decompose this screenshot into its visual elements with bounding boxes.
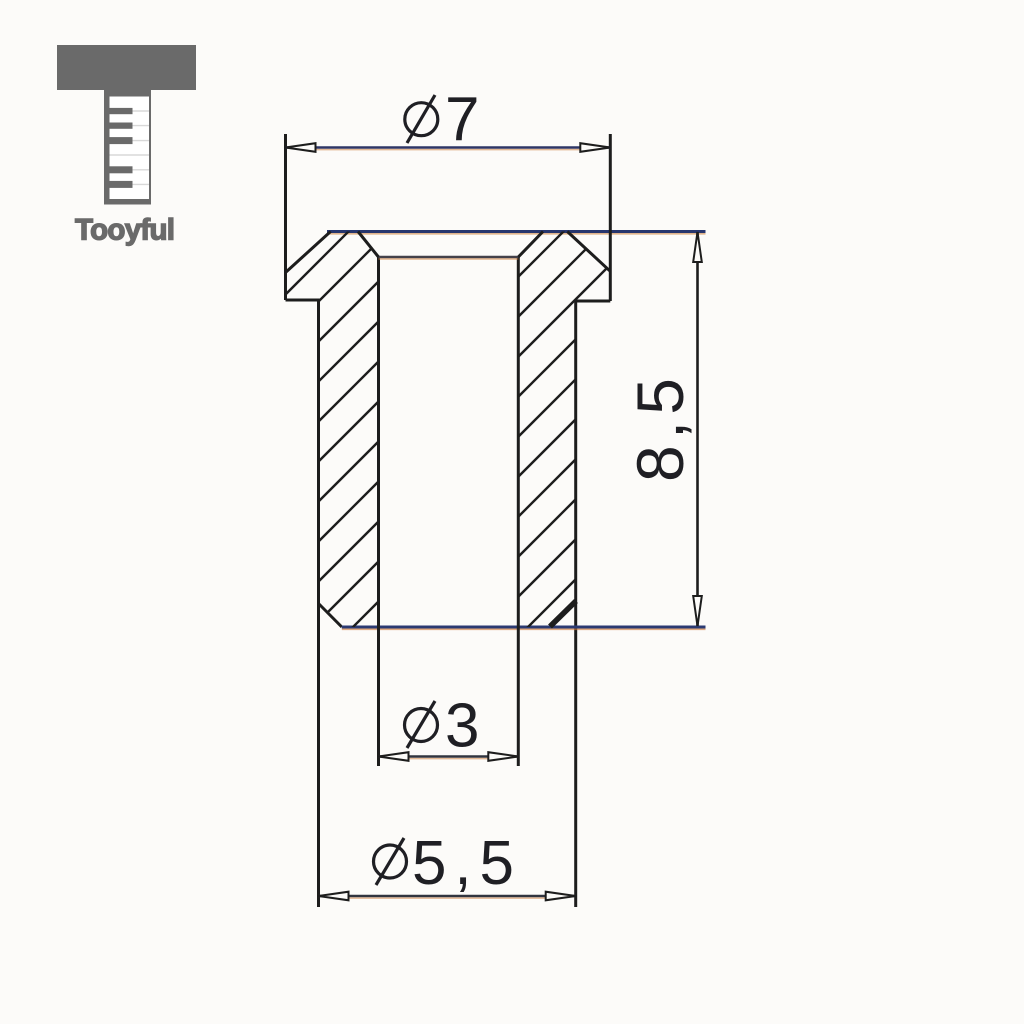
part outline: bottom edge (with 8,5 extension): [342, 627, 706, 629]
part outline: left flange edge + Ø7 extension line: [284, 134, 287, 300]
part outline: bore top edge: [379, 257, 519, 259]
logo text Tooyful: [75, 214, 175, 247]
part outline: top-right chamfer: [567, 232, 610, 272]
svg-text:8,5: 8,5: [623, 378, 697, 482]
dimension line Ø5,5: [319, 892, 576, 901]
logo black keys: [110, 108, 133, 188]
part outline: flange underside steps: [286, 300, 611, 301]
part outline: barrel right edge + Ø5,5 extension: [574, 301, 577, 907]
svg-text:5,5: 5,5: [412, 829, 514, 898]
logo keyboard stem frame: [104, 89, 151, 205]
part outline: bottom-left chamfer: [319, 604, 342, 628]
part outline: top-left chamfer: [286, 232, 331, 273]
hatching left wall: [0, 0, 980, 700]
logo white key separators: [110, 111, 150, 184]
part outline: right flange edge + Ø7 extension line: [609, 134, 612, 301]
part outline: bore left wall + Ø3 extension: [377, 257, 380, 766]
label Ø3: [405, 692, 480, 761]
part outline: bore inner chamfers: [358, 232, 543, 258]
part outline: flange top edge (with 8,5 extension): [327, 232, 706, 234]
part outline: barrel left edge + Ø5,5 extension: [317, 300, 320, 907]
logo top bar: [57, 45, 196, 90]
label Ø5,5: [374, 829, 515, 898]
hatching right wall: [95, 0, 1024, 700]
svg-text:7: 7: [445, 85, 479, 154]
bold bottom-right chamfer hatch: [550, 601, 576, 627]
part outline: bore right wall + Ø3 extension: [517, 257, 520, 766]
svg-text:3: 3: [445, 692, 479, 761]
dimension line Ø3: [379, 752, 519, 761]
dimension line Ø7: [286, 143, 611, 152]
dimension line 8,5: [693, 232, 702, 626]
svg-text:Tooyful: Tooyful: [75, 214, 175, 247]
label Ø7: [405, 85, 480, 154]
label 8,5: [623, 378, 697, 482]
